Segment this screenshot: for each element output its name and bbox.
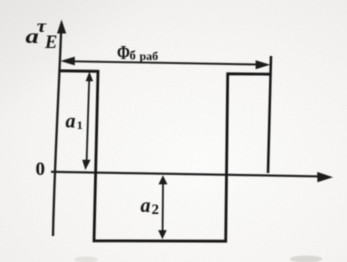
svg-text:0: 0 <box>36 159 46 180</box>
svg-text:a: a <box>141 195 151 217</box>
horizontal axis <box>51 172 333 182</box>
label Phi_b rab <box>117 41 158 63</box>
svg-text:б: б <box>130 48 136 62</box>
label a2 <box>141 195 160 218</box>
label a1 <box>66 111 83 133</box>
a2 dimension arrow <box>158 175 167 239</box>
svg-text:раб: раб <box>140 49 159 63</box>
dimension arrow Phi_b_rab <box>60 57 270 70</box>
svg-text:E: E <box>44 33 57 53</box>
faint scan smudges along bottom edge <box>74 256 322 262</box>
waveform <box>60 71 271 241</box>
axis label a^tau_E <box>26 17 58 53</box>
svg-text:a: a <box>66 111 76 133</box>
right extension line <box>268 56 271 173</box>
vertical axis <box>53 20 66 237</box>
svg-text:Φ: Φ <box>117 41 130 63</box>
a1 dimension arrow <box>82 72 93 170</box>
svg-text:1: 1 <box>77 118 83 132</box>
svg-text:2: 2 <box>152 202 160 218</box>
